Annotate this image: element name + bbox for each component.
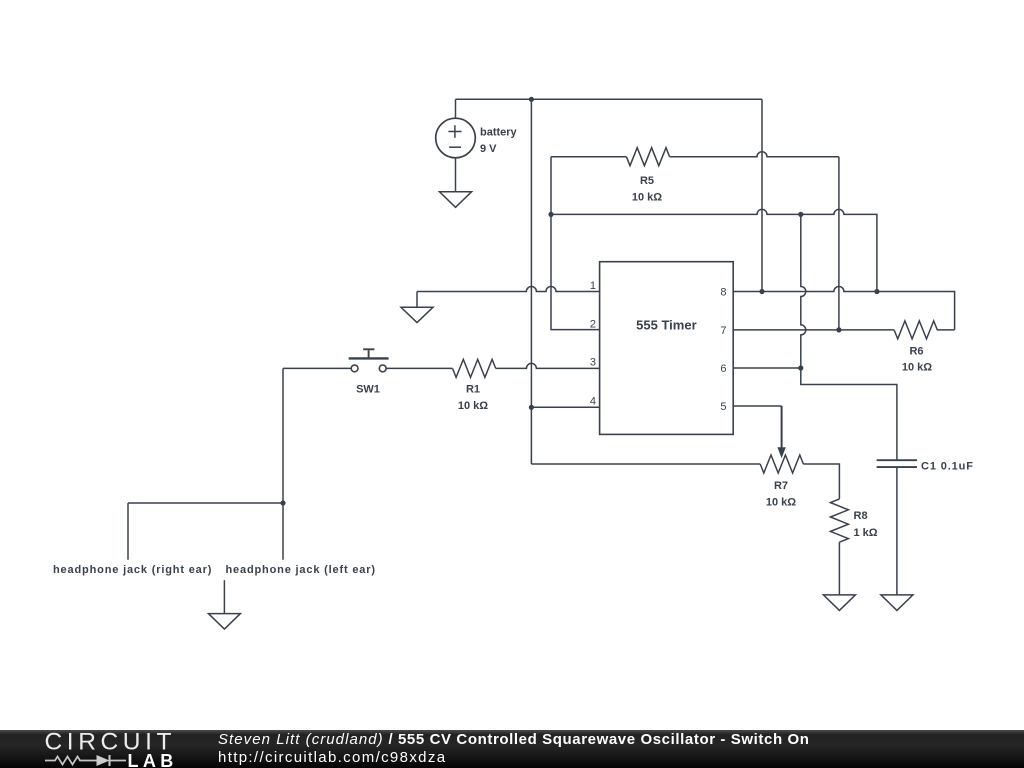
wire pin 4 xyxy=(531,406,599,408)
vertical hop wire x=800.8 (mid rail to pin 6) xyxy=(801,214,806,368)
node mid rail left junction xyxy=(548,212,553,217)
svg-text:1: 1 xyxy=(590,280,596,292)
ground (C1) xyxy=(881,595,913,611)
svg-text:1 kΩ: 1 kΩ xyxy=(854,527,878,539)
wire vertical x=531.4 (battery rail down to R7) xyxy=(530,99,532,464)
svg-text:R6: R6 xyxy=(909,346,923,358)
resistor R5 xyxy=(551,148,839,166)
wire pin 7 to R6 xyxy=(733,329,894,331)
svg-text:9 V: 9 V xyxy=(480,143,497,155)
wire top rail xyxy=(456,98,763,100)
ground (R8) xyxy=(823,595,855,611)
svg-text:2: 2 xyxy=(590,318,596,330)
wire to SW1 left xyxy=(283,367,351,369)
potentiometer R7 xyxy=(760,455,803,473)
wire R5 left down to mid rail xyxy=(551,157,600,330)
svg-text:R8: R8 xyxy=(854,510,868,522)
svg-text:headphone jack (right ear): headphone jack (right ear) xyxy=(53,564,212,576)
node pin4 junction xyxy=(529,405,534,410)
wire rail to R7 xyxy=(531,463,760,465)
wire R7 to R8 xyxy=(803,464,839,499)
ground (pin 1) xyxy=(401,292,433,323)
switch SW1 xyxy=(349,349,389,372)
wire vertical x=762 to pin 8 xyxy=(761,99,763,291)
wire pin 1 xyxy=(417,287,600,292)
resistor R6 xyxy=(894,321,955,339)
node R5/pin7 junction xyxy=(836,327,841,332)
svg-text:7: 7 xyxy=(720,325,726,337)
svg-text:8: 8 xyxy=(720,286,726,298)
svg-text:4: 4 xyxy=(590,396,596,408)
node pin6 junction xyxy=(798,365,803,370)
node pin8 left junction xyxy=(759,289,764,294)
node jack junction xyxy=(280,500,285,505)
op-amp U1 555 Timer box xyxy=(600,262,734,435)
svg-text:R5: R5 xyxy=(640,175,654,187)
svg-text:R1: R1 xyxy=(466,384,480,396)
CircuitLab logo xyxy=(0,730,200,768)
wire jack branch xyxy=(128,503,283,560)
svg-text:SW1: SW1 xyxy=(356,384,380,396)
wire mid rail y=214.4 xyxy=(551,209,877,291)
resistor R8 xyxy=(830,499,848,542)
svg-text:6: 6 xyxy=(720,363,726,375)
wire pin6 branch to C1 xyxy=(801,368,897,460)
wire SW1 to R1 xyxy=(386,367,452,369)
wire R8 to ground xyxy=(838,542,840,595)
wire pin 8 to R6 top xyxy=(733,287,954,330)
footer bar xyxy=(0,730,1024,768)
node mid rail pin6 branch xyxy=(798,212,803,217)
svg-text:5: 5 xyxy=(720,401,726,413)
ground (left ear) xyxy=(208,580,240,629)
resistor R1 xyxy=(453,359,496,377)
svg-text:headphone jack (left ear): headphone jack (left ear) xyxy=(226,564,376,576)
battery V1 xyxy=(436,99,476,192)
svg-text:10 kΩ: 10 kΩ xyxy=(902,362,932,374)
svg-text:10 kΩ: 10 kΩ xyxy=(632,192,662,204)
wire pin 6 xyxy=(733,367,801,369)
svg-text:10 kΩ: 10 kΩ xyxy=(766,496,796,508)
wire R5 right down to pin7 xyxy=(838,157,840,330)
node mid rail to pin8 xyxy=(874,289,879,294)
ground (battery) xyxy=(440,192,472,208)
svg-text:battery: battery xyxy=(480,126,518,138)
wire SW1 down xyxy=(282,368,284,503)
svg-text:LAB: LAB xyxy=(128,751,178,768)
wire pin 5 down to R7 wiper xyxy=(733,405,781,407)
svg-text:3: 3 xyxy=(590,357,596,369)
svg-text:R7: R7 xyxy=(774,480,788,492)
capacitor C1 xyxy=(877,460,917,467)
svg-text:C1 0.1uF: C1 0.1uF xyxy=(921,461,973,473)
R7 wiper arrow xyxy=(777,447,785,458)
wire C1 to ground xyxy=(896,467,898,595)
svg-text:555 Timer: 555 Timer xyxy=(636,318,696,333)
svg-text:10 kΩ: 10 kΩ xyxy=(458,400,488,412)
node top rail junction xyxy=(529,97,534,102)
wire R1 to pin 3 xyxy=(496,363,600,368)
